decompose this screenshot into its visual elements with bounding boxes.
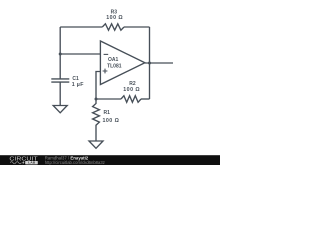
wire: top feedback right segment bbox=[124, 26, 150, 28]
logo lightning bolt bbox=[22, 161, 24, 165]
svg-text:100 Ω: 100 Ω bbox=[106, 15, 123, 21]
svg-text:LAB: LAB bbox=[28, 161, 36, 165]
logo second row wave bbox=[10, 162, 21, 164]
ground symbol below R1 bbox=[89, 141, 103, 148]
resistor R3 zigzag bbox=[102, 24, 124, 30]
svg-text:R1: R1 bbox=[104, 110, 111, 116]
wire: non-inverting input stub bbox=[96, 72, 100, 100]
svg-text:OA1: OA1 bbox=[108, 57, 119, 63]
resistor R2 zigzag bbox=[121, 96, 141, 103]
wire: right feedback vertical bbox=[149, 27, 151, 99]
svg-text:100 Ω: 100 Ω bbox=[103, 118, 120, 124]
op-amp minus sign bbox=[104, 53, 109, 55]
wire: left rail vertical (top loop corner down to C1) bbox=[59, 27, 61, 79]
node: output junction bbox=[148, 62, 151, 65]
wire: inverting input (left rail to op-amp) bbox=[60, 53, 100, 55]
wire: output bbox=[145, 62, 173, 64]
wire: bottom node right segment bbox=[141, 98, 150, 100]
svg-text:100 Ω: 100 Ω bbox=[123, 87, 140, 93]
wire: top feedback left segment bbox=[60, 26, 102, 28]
footer bar bbox=[0, 155, 220, 165]
svg-text:http://circuitlab.com/ckd6nb8a: http://circuitlab.com/ckd6nb8a3z bbox=[45, 160, 105, 165]
wire: bottom node left segment bbox=[96, 98, 121, 100]
svg-text:1 µF: 1 µF bbox=[72, 82, 85, 88]
logo LAB box bbox=[25, 161, 38, 164]
node: junction at R1 top / bottom net bbox=[95, 98, 98, 101]
svg-text:C1: C1 bbox=[72, 76, 79, 82]
capacitor C1 top plate bbox=[51, 78, 69, 80]
ground symbol below C1 bbox=[53, 106, 67, 113]
capacitor C1 bottom plate bbox=[51, 81, 69, 83]
resistor R1 zigzag (vertical) bbox=[93, 99, 100, 141]
svg-text:TL081: TL081 bbox=[107, 63, 122, 69]
op-amp U1 triangle body bbox=[100, 41, 144, 85]
op-amp plus sign bbox=[103, 69, 108, 74]
wire: C1 bottom lead bbox=[59, 82, 61, 105]
node: junction at inverting input / left rail bbox=[59, 53, 62, 56]
